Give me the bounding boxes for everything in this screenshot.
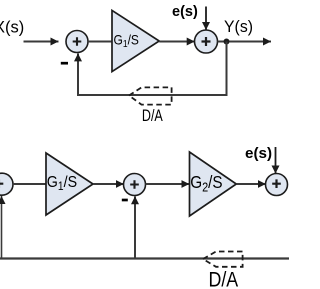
summing junction S1: [66, 31, 88, 53]
svg-text:Y(s): Y(s): [224, 17, 253, 36]
wire S3 to gain block G1b: [13, 183, 47, 185]
D/A converter block (bottom, dashed): [203, 252, 243, 267]
plus sign in S1: [73, 37, 82, 46]
D/A converter block (top, dashed): [129, 87, 172, 104]
plus sign in S4: [130, 180, 139, 189]
wire S1 to gain block G1: [88, 41, 113, 43]
svg-text:X(s): X(s): [0, 19, 24, 37]
gain block G1 (G1/S): [112, 10, 159, 71]
wire G2 to summing junction S5 with arrowhead: [236, 183, 265, 185]
summing junction S5: [266, 174, 288, 196]
wire X(s) input arrow into summing junction S1: [24, 41, 59, 43]
summing junction S2: [195, 30, 218, 53]
summing junction S4: [124, 174, 146, 196]
svg-text:e(s): e(s): [172, 4, 198, 20]
summing junction S3 (cut off at left edge): [0, 173, 13, 195]
wire G1b to summing junction S4 with arrowhead: [93, 183, 124, 185]
wire feedback arrowhead into S1 bottom: [77, 53, 79, 60]
minus label at S1 feedback input: [61, 62, 68, 65]
wire S2 to output with arrowhead Y(s): [218, 41, 272, 43]
svg-text:D/A: D/A: [142, 107, 163, 125]
plus sign in S5: [272, 179, 281, 188]
wire feedback: down from node: [78, 42, 227, 96]
wire e(s) arrow into S2 top: [205, 7, 207, 31]
wire bottom feedback horizontal line: [0, 257, 289, 259]
plus sign in S3: [0, 179, 3, 188]
svg-text:e(s): e(s): [245, 145, 272, 162]
gain block G2 (G2/S): [190, 152, 237, 216]
wire feedback vertical into S3 bottom: [1, 196, 3, 259]
wire S4 to gain block G2 with arrowhead: [146, 183, 190, 185]
gain block G1b (G1/S bottom): [46, 153, 93, 215]
wire feedback vertical into S4 bottom: [134, 196, 136, 259]
minus label at S4 feedback input: [122, 199, 128, 202]
node junction dot on output: [224, 39, 230, 45]
svg-text:D/A: D/A: [209, 269, 239, 289]
plus sign in S2: [202, 37, 211, 46]
wire G1 to summing junction S2 with arrowhead: [159, 41, 195, 43]
wire e(s) arrow into S5 top: [275, 147, 277, 174]
